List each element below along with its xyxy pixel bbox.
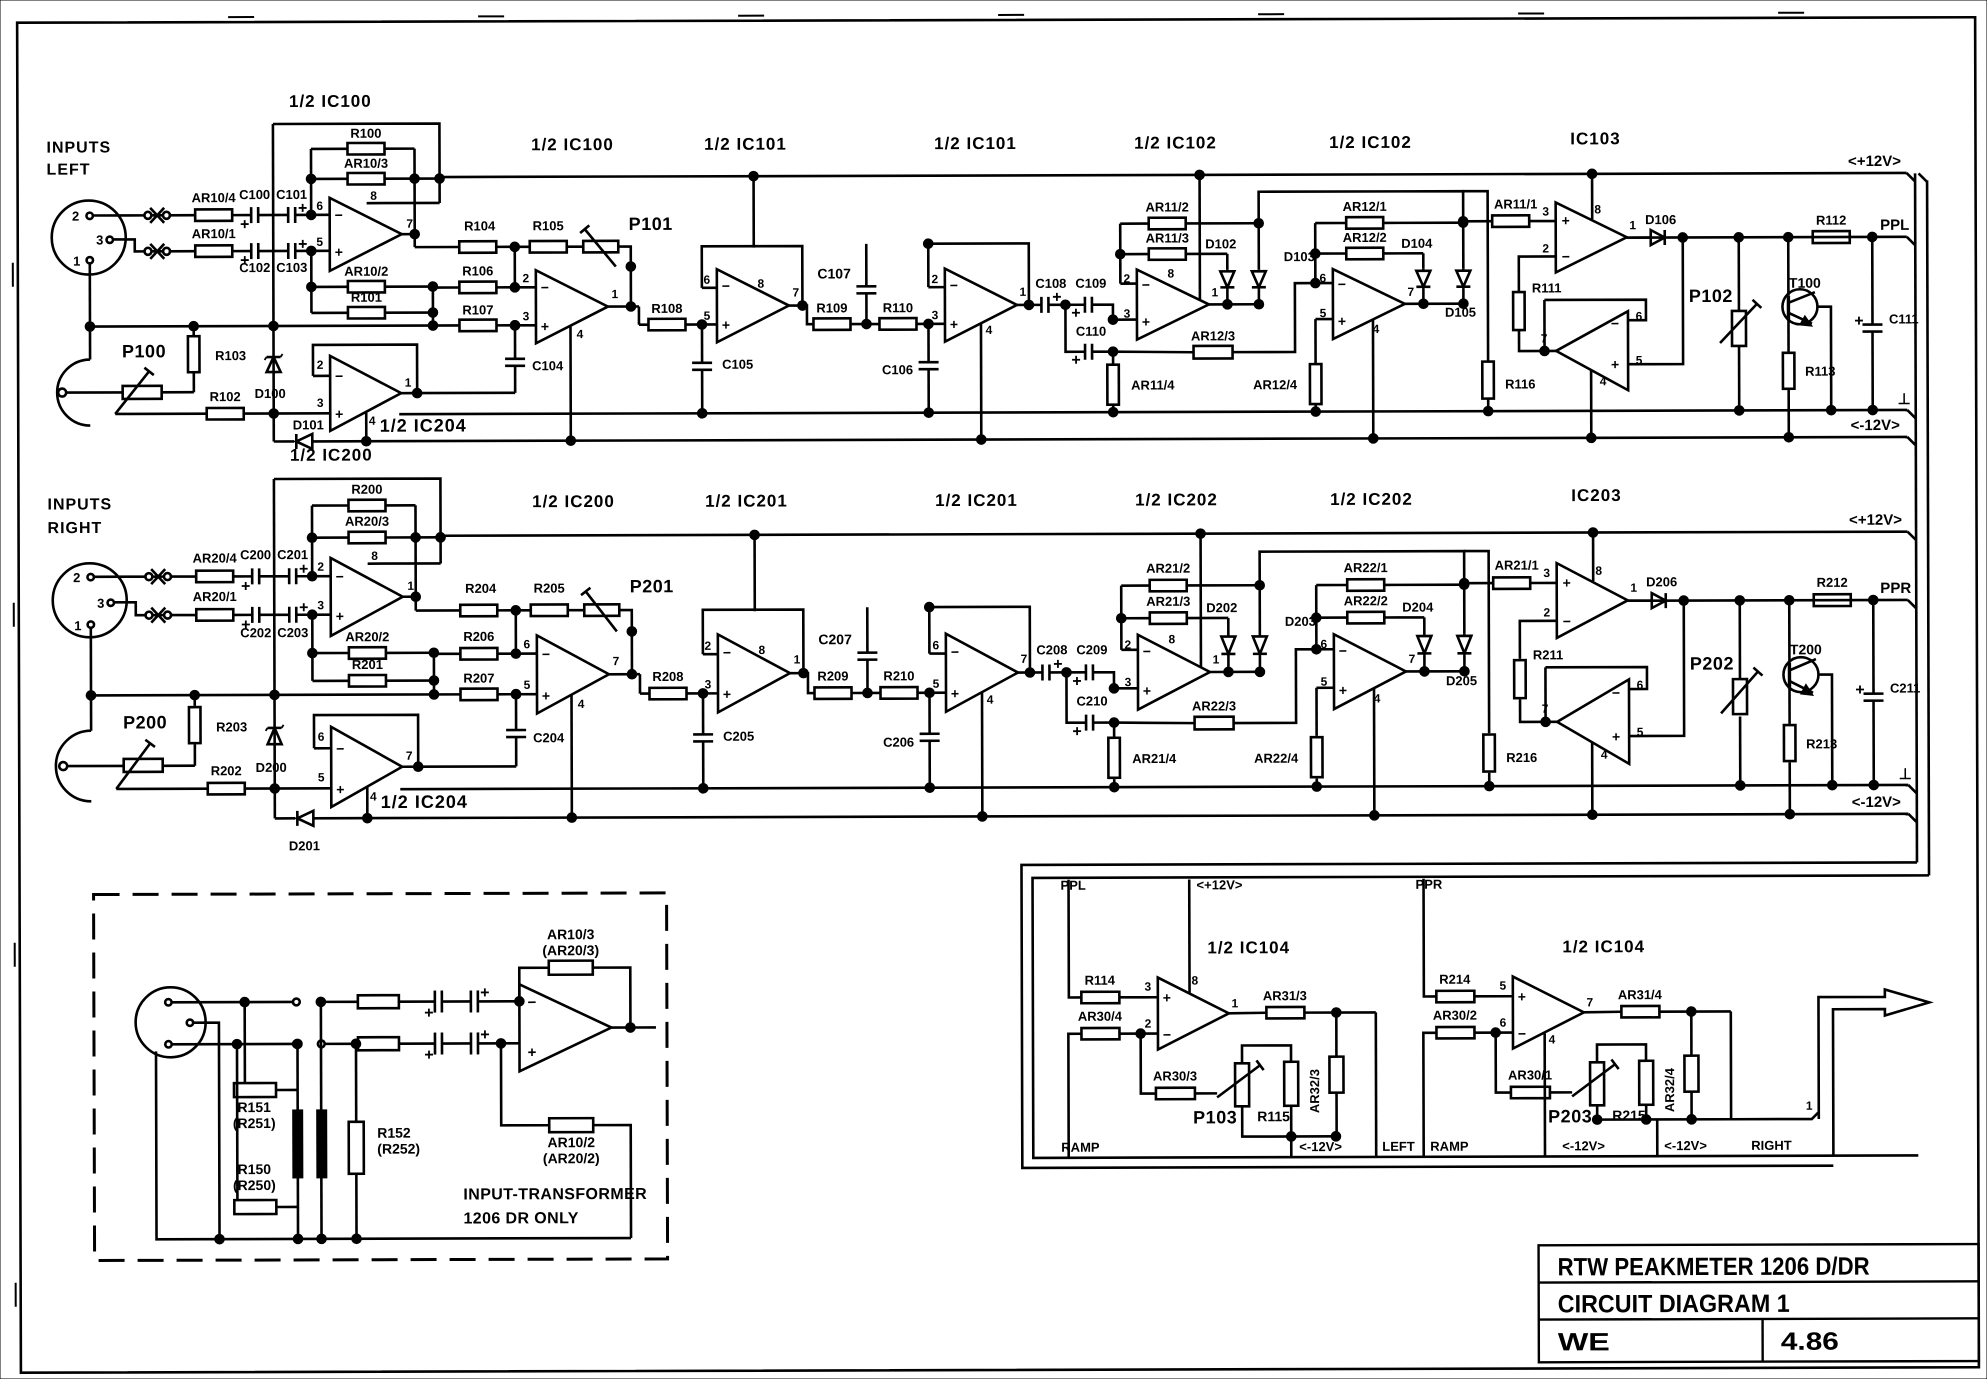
svg-text:AR30/3: AR30/3	[1153, 1068, 1197, 1083]
wire IC102a output	[1210, 671, 1260, 674]
resistor AR30/2	[1436, 1027, 1474, 1039]
svg-text:R110: R110	[883, 300, 913, 315]
wire P101 right to output node	[618, 247, 631, 307]
diode D104	[1383, 252, 1423, 255]
wire +12V rail channel 1	[440, 173, 1907, 177]
capacitor C103	[287, 243, 290, 259]
resistor AR10/4	[195, 209, 232, 221]
svg-text:P103: P103	[1193, 1107, 1237, 1127]
wire C109 to pin node	[1092, 305, 1113, 320]
wire IC101b output	[1017, 304, 1041, 307]
wire IC101a output	[789, 304, 802, 307]
svg-text:R114: R114	[1085, 973, 1116, 988]
svg-text:−: −	[951, 644, 959, 660]
box summing section outer	[1021, 862, 1917, 1167]
svg-text:3: 3	[523, 309, 530, 323]
wire IC103 pin2 to R111	[1519, 256, 1556, 292]
wire R102 to IC204 pin3	[244, 412, 330, 415]
svg-text:1/2 IC102: 1/2 IC102	[1329, 133, 1412, 152]
svg-text:+: +	[951, 685, 959, 701]
wire XLR shell to bottom rail	[156, 1050, 631, 1239]
resistor R209	[814, 687, 851, 699]
wire XLR middle pin down	[193, 1023, 220, 1240]
wire AR10/2 R101 right junction	[386, 651, 434, 654]
resistor AR22/1	[1347, 579, 1384, 591]
svg-text:1: 1	[612, 287, 619, 301]
wire IC100a output	[402, 233, 415, 236]
svg-text:P100: P100	[122, 341, 166, 361]
wire IC101a output	[790, 672, 803, 675]
wire IC102a pin8 from +12V	[1199, 534, 1202, 667]
svg-text:C207: C207	[818, 631, 852, 647]
svg-text:AR32/4: AR32/4	[1662, 1067, 1677, 1112]
svg-text:3: 3	[96, 232, 103, 247]
resistor AR11/2	[1149, 218, 1186, 230]
resistor R112	[1813, 231, 1850, 243]
svg-text:AR11/2: AR11/2	[1145, 199, 1188, 214]
wire feedback lower	[501, 1043, 549, 1125]
wire R105 to P101	[568, 609, 584, 612]
op-amp IC200b	[537, 635, 609, 713]
svg-text:AR12/2: AR12/2	[1343, 230, 1387, 245]
svg-text:C100: C100	[239, 187, 270, 202]
wire feedback upper	[519, 968, 549, 1002]
svg-text:C103: C103	[276, 260, 307, 275]
svg-text:4: 4	[1549, 1032, 1556, 1046]
resistor R150 (R250)	[234, 1200, 276, 1214]
svg-text:D200: D200	[256, 760, 287, 775]
switch input link pin3	[144, 248, 151, 255]
svg-text:5: 5	[1499, 979, 1506, 993]
connector P100 input terminal	[58, 389, 66, 397]
wire C104 vertical	[515, 694, 518, 730]
svg-text:C105: C105	[722, 357, 753, 372]
svg-text:1: 1	[1232, 996, 1239, 1010]
svg-text:AR10/3: AR10/3	[344, 156, 388, 171]
wire pin5 node to feedback resistors	[310, 251, 313, 313]
wire PPL input	[1069, 880, 1082, 998]
svg-text:D101: D101	[293, 417, 324, 432]
svg-text:8: 8	[1168, 632, 1175, 646]
svg-text:1/2 IC204: 1/2 IC204	[381, 792, 468, 812]
capacitor C204	[506, 729, 526, 732]
svg-text:<+12V>: <+12V>	[1849, 512, 1902, 529]
wire IC204 output	[401, 392, 417, 395]
capacitor C203	[288, 607, 291, 623]
resistor R212	[1814, 594, 1851, 606]
svg-text:−: −	[950, 277, 958, 293]
svg-text:(R251): (R251)	[233, 1115, 276, 1131]
svg-text:⊥: ⊥	[1899, 766, 1912, 783]
diode D100 zener	[267, 357, 281, 372]
op-amp IC102b	[1333, 269, 1405, 339]
svg-text:P201: P201	[630, 576, 674, 596]
wire R108 to pin5 node	[687, 692, 718, 695]
svg-text:+: +	[542, 688, 550, 704]
svg-text:+: +	[1611, 356, 1619, 372]
svg-text:R113: R113	[1805, 364, 1835, 379]
svg-text:C104: C104	[532, 358, 564, 373]
svg-text:1206 DR ONLY: 1206 DR ONLY	[463, 1210, 578, 1227]
svg-text:D103: D103	[1284, 249, 1315, 264]
wire pot bottoms	[1596, 1105, 1599, 1119]
svg-text:1: 1	[1806, 1099, 1813, 1113]
svg-text:AR32/3: AR32/3	[1307, 1069, 1322, 1113]
wire feedback right	[385, 504, 415, 507]
svg-text:C203: C203	[277, 625, 308, 640]
resistor AR32/4	[1684, 1056, 1698, 1092]
diode D201 on -12V rail	[296, 811, 299, 826]
svg-text:1: 1	[407, 579, 414, 593]
wire C103 to op-amp pin 5	[296, 613, 330, 616]
svg-text:AR21/3: AR21/3	[1146, 594, 1190, 609]
wire R104-R105 node	[496, 245, 529, 248]
svg-text:R201: R201	[352, 657, 383, 672]
capacitor C100	[250, 207, 253, 223]
wire to C100	[233, 214, 251, 217]
wire C101 to op-amp pin 6	[295, 214, 329, 217]
capacitor C211	[1872, 600, 1875, 694]
svg-text:D203: D203	[1285, 614, 1316, 629]
wire R103 connections	[192, 326, 195, 336]
svg-text:AR22/4: AR22/4	[1254, 751, 1299, 766]
wire R103 connections	[193, 695, 196, 706]
wire RIGHT output to arrow	[1731, 1011, 1819, 1119]
op-amp transformer buffer	[519, 984, 611, 1071]
svg-text:R209: R209	[817, 669, 848, 684]
svg-text:6: 6	[703, 273, 710, 287]
svg-text:R102: R102	[210, 389, 241, 404]
svg-text:8: 8	[758, 277, 765, 291]
svg-text:IC103: IC103	[1570, 129, 1620, 148]
wire output	[611, 1026, 655, 1029]
op-amp IC104	[1158, 977, 1229, 1049]
svg-text:C101: C101	[276, 187, 307, 202]
transistor T200	[1783, 657, 1818, 692]
capacitor C208	[1041, 664, 1044, 680]
svg-text:R208: R208	[652, 669, 683, 684]
svg-text:AR12/1: AR12/1	[1343, 199, 1387, 214]
svg-text:−: −	[1612, 685, 1620, 701]
resistor R100 feedback	[347, 143, 384, 155]
arrow output to diagram 2	[1818, 989, 1929, 1155]
wire IC103 pin2 to R111	[1520, 621, 1557, 659]
capacitor C108	[1040, 297, 1043, 313]
resistor R208	[649, 688, 686, 700]
resistor R210	[880, 687, 917, 699]
svg-text:C102: C102	[239, 260, 270, 275]
wire feedback box IC204	[314, 715, 418, 767]
svg-text:C206: C206	[883, 735, 914, 750]
potentiometer P203	[1550, 1091, 1572, 1094]
svg-text:AR30/1: AR30/1	[1508, 1067, 1552, 1082]
resistor R107	[459, 320, 496, 332]
resistor AR31/3 output	[1229, 1011, 1267, 1014]
svg-text:1/2 IC202: 1/2 IC202	[1330, 490, 1413, 509]
svg-text:7: 7	[613, 654, 620, 668]
resistor AR30/4	[1081, 1028, 1119, 1040]
svg-text:R150: R150	[238, 1161, 272, 1177]
svg-text:+: +	[1163, 990, 1171, 1006]
svg-text:+: +	[1518, 989, 1526, 1005]
op-amp IC100b	[536, 270, 608, 343]
svg-text:T100: T100	[1789, 275, 1821, 291]
svg-text:R204: R204	[465, 581, 497, 596]
resistor R203	[189, 707, 201, 743]
capacitor C101	[287, 207, 290, 223]
resistor AR22/4	[1316, 686, 1333, 689]
resistor R103	[188, 336, 200, 372]
svg-text:6: 6	[1500, 1016, 1507, 1030]
wire shield arc	[57, 360, 90, 426]
svg-text:AR10/3: AR10/3	[547, 926, 595, 942]
diode D106	[1627, 236, 1651, 239]
svg-text:4: 4	[370, 790, 377, 804]
resistor R115	[1284, 1062, 1298, 1106]
svg-text:AR21/2: AR21/2	[1146, 561, 1190, 576]
svg-text:D206: D206	[1646, 574, 1677, 589]
svg-text:+: +	[1563, 575, 1571, 591]
op-amp IC200a	[331, 558, 403, 636]
svg-text:−: −	[335, 207, 343, 223]
svg-text:2: 2	[705, 639, 712, 653]
svg-text:C208: C208	[1036, 642, 1067, 657]
resistor AR12/1	[1346, 217, 1383, 229]
svg-text:3: 3	[97, 596, 104, 611]
capacitor pair lower	[399, 1042, 435, 1045]
capacitor C104	[505, 358, 525, 361]
capacitor C102	[250, 243, 253, 259]
svg-text:C108: C108	[1035, 276, 1066, 291]
svg-text:−: −	[1339, 643, 1347, 659]
wire C101 to op-amp pin 6	[296, 575, 330, 578]
capacitor C201	[288, 568, 291, 584]
svg-text:R115: R115	[1257, 1108, 1290, 1124]
svg-text:PPR: PPR	[1416, 877, 1443, 892]
svg-text:AR12/3: AR12/3	[1191, 328, 1235, 343]
resistor R201	[349, 675, 386, 687]
svg-text:1/2 IC104: 1/2 IC104	[1207, 938, 1290, 957]
resistor AR12/3	[1113, 351, 1194, 352]
dashed box INPUT-TRANSFORMER option	[94, 893, 668, 1261]
svg-text:AR22/2: AR22/2	[1344, 593, 1388, 608]
wire R104-R105 node	[497, 609, 530, 612]
resistor R151 (R251)	[234, 1083, 276, 1097]
svg-text:C202: C202	[240, 625, 271, 640]
wire IC103 lower pin4 to -12V	[1591, 743, 1594, 815]
svg-text:R104: R104	[464, 218, 496, 233]
svg-text:AR31/4: AR31/4	[1618, 987, 1663, 1002]
wire IC100b output to R108	[609, 673, 640, 676]
wire ground rail	[400, 785, 1908, 789]
wire AR12/3 to pin6 IC102b	[1233, 649, 1316, 723]
svg-text:C109: C109	[1075, 276, 1106, 291]
wire upper terminal pair	[318, 998, 325, 1005]
wire feedback left IC102a	[1121, 584, 1149, 587]
transistor T100	[1782, 289, 1817, 324]
svg-text:4: 4	[578, 697, 585, 711]
svg-text:D202: D202	[1206, 600, 1237, 615]
resistor AR22/2	[1347, 612, 1384, 624]
svg-text:3: 3	[705, 677, 712, 691]
svg-text:R203: R203	[216, 719, 247, 734]
svg-text:AR31/3: AR31/3	[1263, 988, 1307, 1003]
resistor R214	[1436, 991, 1474, 1003]
wire -12V rail	[275, 817, 295, 820]
svg-text:R216: R216	[1506, 750, 1537, 765]
diode D101 on -12V rail	[295, 434, 298, 449]
wire feedback box IC101a	[702, 246, 803, 306]
wire supply box around IC100a	[273, 124, 440, 204]
wire IC102a pin8 from +12V	[1198, 175, 1201, 299]
svg-text:1/2 IC204: 1/2 IC204	[380, 415, 467, 435]
svg-text:D102: D102	[1205, 236, 1236, 251]
svg-text:D201: D201	[289, 838, 320, 853]
op-amp IC103 lower reversed	[1556, 311, 1628, 390]
svg-text:R112: R112	[1816, 213, 1846, 228]
wire XLR pin3 jog	[114, 602, 147, 615]
connector P100 input terminal	[59, 762, 67, 770]
resistor R215	[1639, 1061, 1653, 1105]
svg-text:3: 3	[1124, 307, 1131, 321]
svg-text:7: 7	[406, 749, 413, 763]
svg-text:1: 1	[1630, 581, 1637, 595]
svg-text:R109: R109	[816, 300, 847, 315]
svg-text:R200: R200	[351, 482, 382, 497]
svg-text:CIRCUIT DIAGRAM 1: CIRCUIT DIAGRAM 1	[1558, 1290, 1790, 1319]
capacitor C202	[251, 607, 254, 623]
resistor R109	[813, 318, 850, 330]
svg-text:1/2 IC100: 1/2 IC100	[289, 92, 372, 111]
svg-text:R211: R211	[1533, 647, 1563, 662]
svg-text:AR20/3: AR20/3	[345, 514, 389, 529]
svg-text:R152: R152	[377, 1125, 411, 1141]
svg-text:−: −	[335, 368, 343, 384]
wire pot bottoms	[1242, 1106, 1336, 1137]
svg-text:+: +	[336, 781, 344, 797]
svg-text:1: 1	[794, 653, 801, 667]
svg-text:R108: R108	[651, 301, 682, 316]
svg-text:2: 2	[1145, 1017, 1152, 1031]
svg-text:−: −	[1611, 315, 1619, 331]
wire R109 to R110 node	[850, 323, 879, 326]
svg-text:+: +	[1339, 682, 1347, 698]
svg-text:R205: R205	[534, 581, 565, 596]
resistor R108	[648, 319, 685, 331]
resistor R106	[459, 282, 496, 294]
wire pin3 node IC102a	[1114, 687, 1138, 690]
connector XLR transformer input	[136, 987, 206, 1057]
svg-text:R151: R151	[237, 1099, 271, 1115]
svg-text:AR20/1: AR20/1	[193, 589, 237, 604]
svg-text:C204: C204	[533, 730, 565, 745]
wire clamp link to next stage	[1260, 551, 1465, 585]
resistor AR10/1	[195, 245, 232, 257]
svg-text:R210: R210	[883, 668, 914, 683]
svg-text:−: −	[722, 278, 730, 294]
svg-text:R101: R101	[351, 290, 382, 305]
svg-text:R111: R111	[1532, 280, 1562, 295]
wire bus vertical 1	[1915, 173, 1917, 862]
svg-text:P101: P101	[629, 214, 673, 234]
diode D200 zener	[268, 728, 282, 744]
svg-text:8: 8	[1191, 973, 1198, 987]
svg-text:1/2 IC100: 1/2 IC100	[531, 135, 614, 154]
wire XLR pin2 to switch	[93, 214, 146, 217]
connector XLR input socket	[53, 563, 127, 637]
svg-text:6: 6	[318, 730, 325, 744]
resistor AR32/3	[1329, 1057, 1343, 1093]
svg-text:−: −	[723, 644, 731, 660]
wire LEFT output	[1375, 1012, 1378, 1156]
svg-text:C210: C210	[1076, 693, 1107, 708]
wire feedback box IC101b	[929, 652, 945, 655]
svg-text:R213: R213	[1806, 736, 1837, 751]
svg-text:RIGHT: RIGHT	[1751, 1138, 1792, 1153]
potentiometer P202	[1738, 600, 1741, 679]
capacitor C207	[866, 660, 869, 693]
wire AR12/1 junction to AR11/1	[1463, 220, 1492, 223]
wire bus vertical 2	[1927, 180, 1929, 875]
svg-text:2: 2	[931, 272, 938, 286]
svg-text:1/2 IC104: 1/2 IC104	[1562, 937, 1645, 956]
resistor R211	[1514, 660, 1526, 698]
diode D202	[1187, 617, 1228, 620]
svg-text:1: 1	[405, 376, 412, 390]
wire IC102b pin4 to -12V	[1372, 320, 1375, 438]
svg-text:+: +	[1142, 314, 1150, 330]
wire IC204 output	[402, 765, 418, 768]
potentiometer P200	[124, 759, 163, 772]
wire IC103 pin8 from +12V	[1592, 533, 1595, 582]
resistor R200 feedback	[348, 500, 385, 512]
resistor AR21/3	[1150, 612, 1187, 624]
svg-text:3: 3	[317, 396, 324, 410]
resistor AR11/3	[1149, 248, 1186, 260]
transformer windings	[293, 1110, 303, 1178]
wire IC103 pin8 from +12V	[1591, 174, 1594, 219]
svg-text:1/2 IC201: 1/2 IC201	[705, 491, 788, 510]
svg-text:RAMP: RAMP	[1430, 1139, 1469, 1154]
op-amp IC101a	[717, 269, 789, 342]
svg-text:−: −	[1562, 248, 1570, 264]
svg-text:2: 2	[73, 570, 80, 585]
resistor AR20/4	[196, 571, 233, 583]
svg-text:1: 1	[1213, 652, 1220, 666]
resistor AR11/4	[1112, 352, 1115, 365]
op-amp IC101b	[945, 268, 1017, 341]
resistor R110	[879, 318, 916, 330]
svg-text:(R252): (R252)	[377, 1141, 420, 1157]
svg-text:7: 7	[406, 217, 413, 231]
wire IC103 pin5 sense from output line	[1628, 237, 1683, 364]
wire R111 to IC103b output	[1519, 330, 1556, 351]
svg-text:1: 1	[74, 618, 81, 633]
svg-text:5: 5	[704, 309, 711, 323]
svg-text:P203: P203	[1548, 1106, 1592, 1126]
svg-text:C205: C205	[723, 729, 754, 744]
svg-text:+: +	[1562, 212, 1570, 228]
svg-text:P202: P202	[1690, 654, 1734, 674]
svg-text:C201: C201	[277, 547, 308, 562]
svg-text:AR30/4: AR30/4	[1078, 1009, 1123, 1024]
wire feedback left IC102b	[1315, 222, 1346, 225]
op-amp IC203 lower reversed	[1557, 679, 1629, 764]
resistor AR21/4	[1113, 723, 1116, 737]
op-amp IC100a	[330, 198, 402, 271]
svg-text:R202: R202	[211, 763, 242, 778]
wire feedback box IC204	[313, 345, 417, 394]
